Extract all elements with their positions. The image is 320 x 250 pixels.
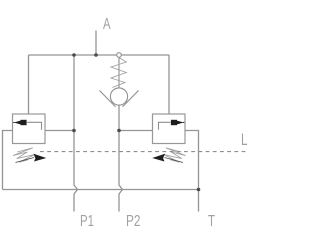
pilot drain dashed line L — [40, 151, 246, 153]
wire vertical P1 line with jump — [74, 55, 78, 212]
svg-text:P1: P1 — [80, 213, 94, 230]
wire bottom horizontal line — [3, 189, 199, 191]
relief valve RV2 flow path elbow — [159, 122, 171, 130]
relief valve RV2 adjust arrow — [165, 158, 184, 163]
relief valve RV1 flow path elbow — [27, 122, 42, 130]
relief valve RV2 arrow — [183, 122, 184, 124]
wire vertical P2 line with jump — [119, 105, 123, 212]
wire top horizontal line — [29, 54, 170, 56]
junction dot T — [197, 188, 201, 192]
svg-text:T: T — [208, 213, 215, 230]
wire left drop to left valve — [28, 55, 30, 114]
relief valve RV1 adjust arrow — [16, 158, 35, 163]
check valve CV1 vent circle — [117, 53, 122, 58]
wire right valve right port T — [185, 131, 199, 212]
relief valve RV1 arrow — [13, 122, 14, 124]
junction dot RV1 right port — [72, 129, 76, 133]
svg-text:P2: P2 — [126, 213, 141, 230]
relief valve RV1 body — [13, 114, 46, 144]
junction dot P1 top — [72, 53, 76, 57]
check valve CV1 seat — [100, 91, 139, 107]
relief valve RV2 body — [153, 114, 186, 144]
svg-text:A: A — [103, 16, 111, 33]
wire right valve left port — [119, 130, 153, 132]
check valve CV1 spring — [118, 58, 120, 89]
relief valve RV2 spring — [163, 148, 185, 162]
wire left valve right port — [45, 130, 74, 132]
wire left valve left port — [3, 131, 13, 190]
junction dot RV2 left port — [117, 129, 121, 133]
wire right drop to right valve — [168, 55, 170, 114]
wire port A stub — [95, 31, 97, 56]
relief valve RV1 spring — [13, 148, 35, 162]
junction dot A — [94, 53, 98, 57]
check valve CV1 ball — [110, 88, 127, 105]
svg-text:L: L — [241, 130, 248, 149]
